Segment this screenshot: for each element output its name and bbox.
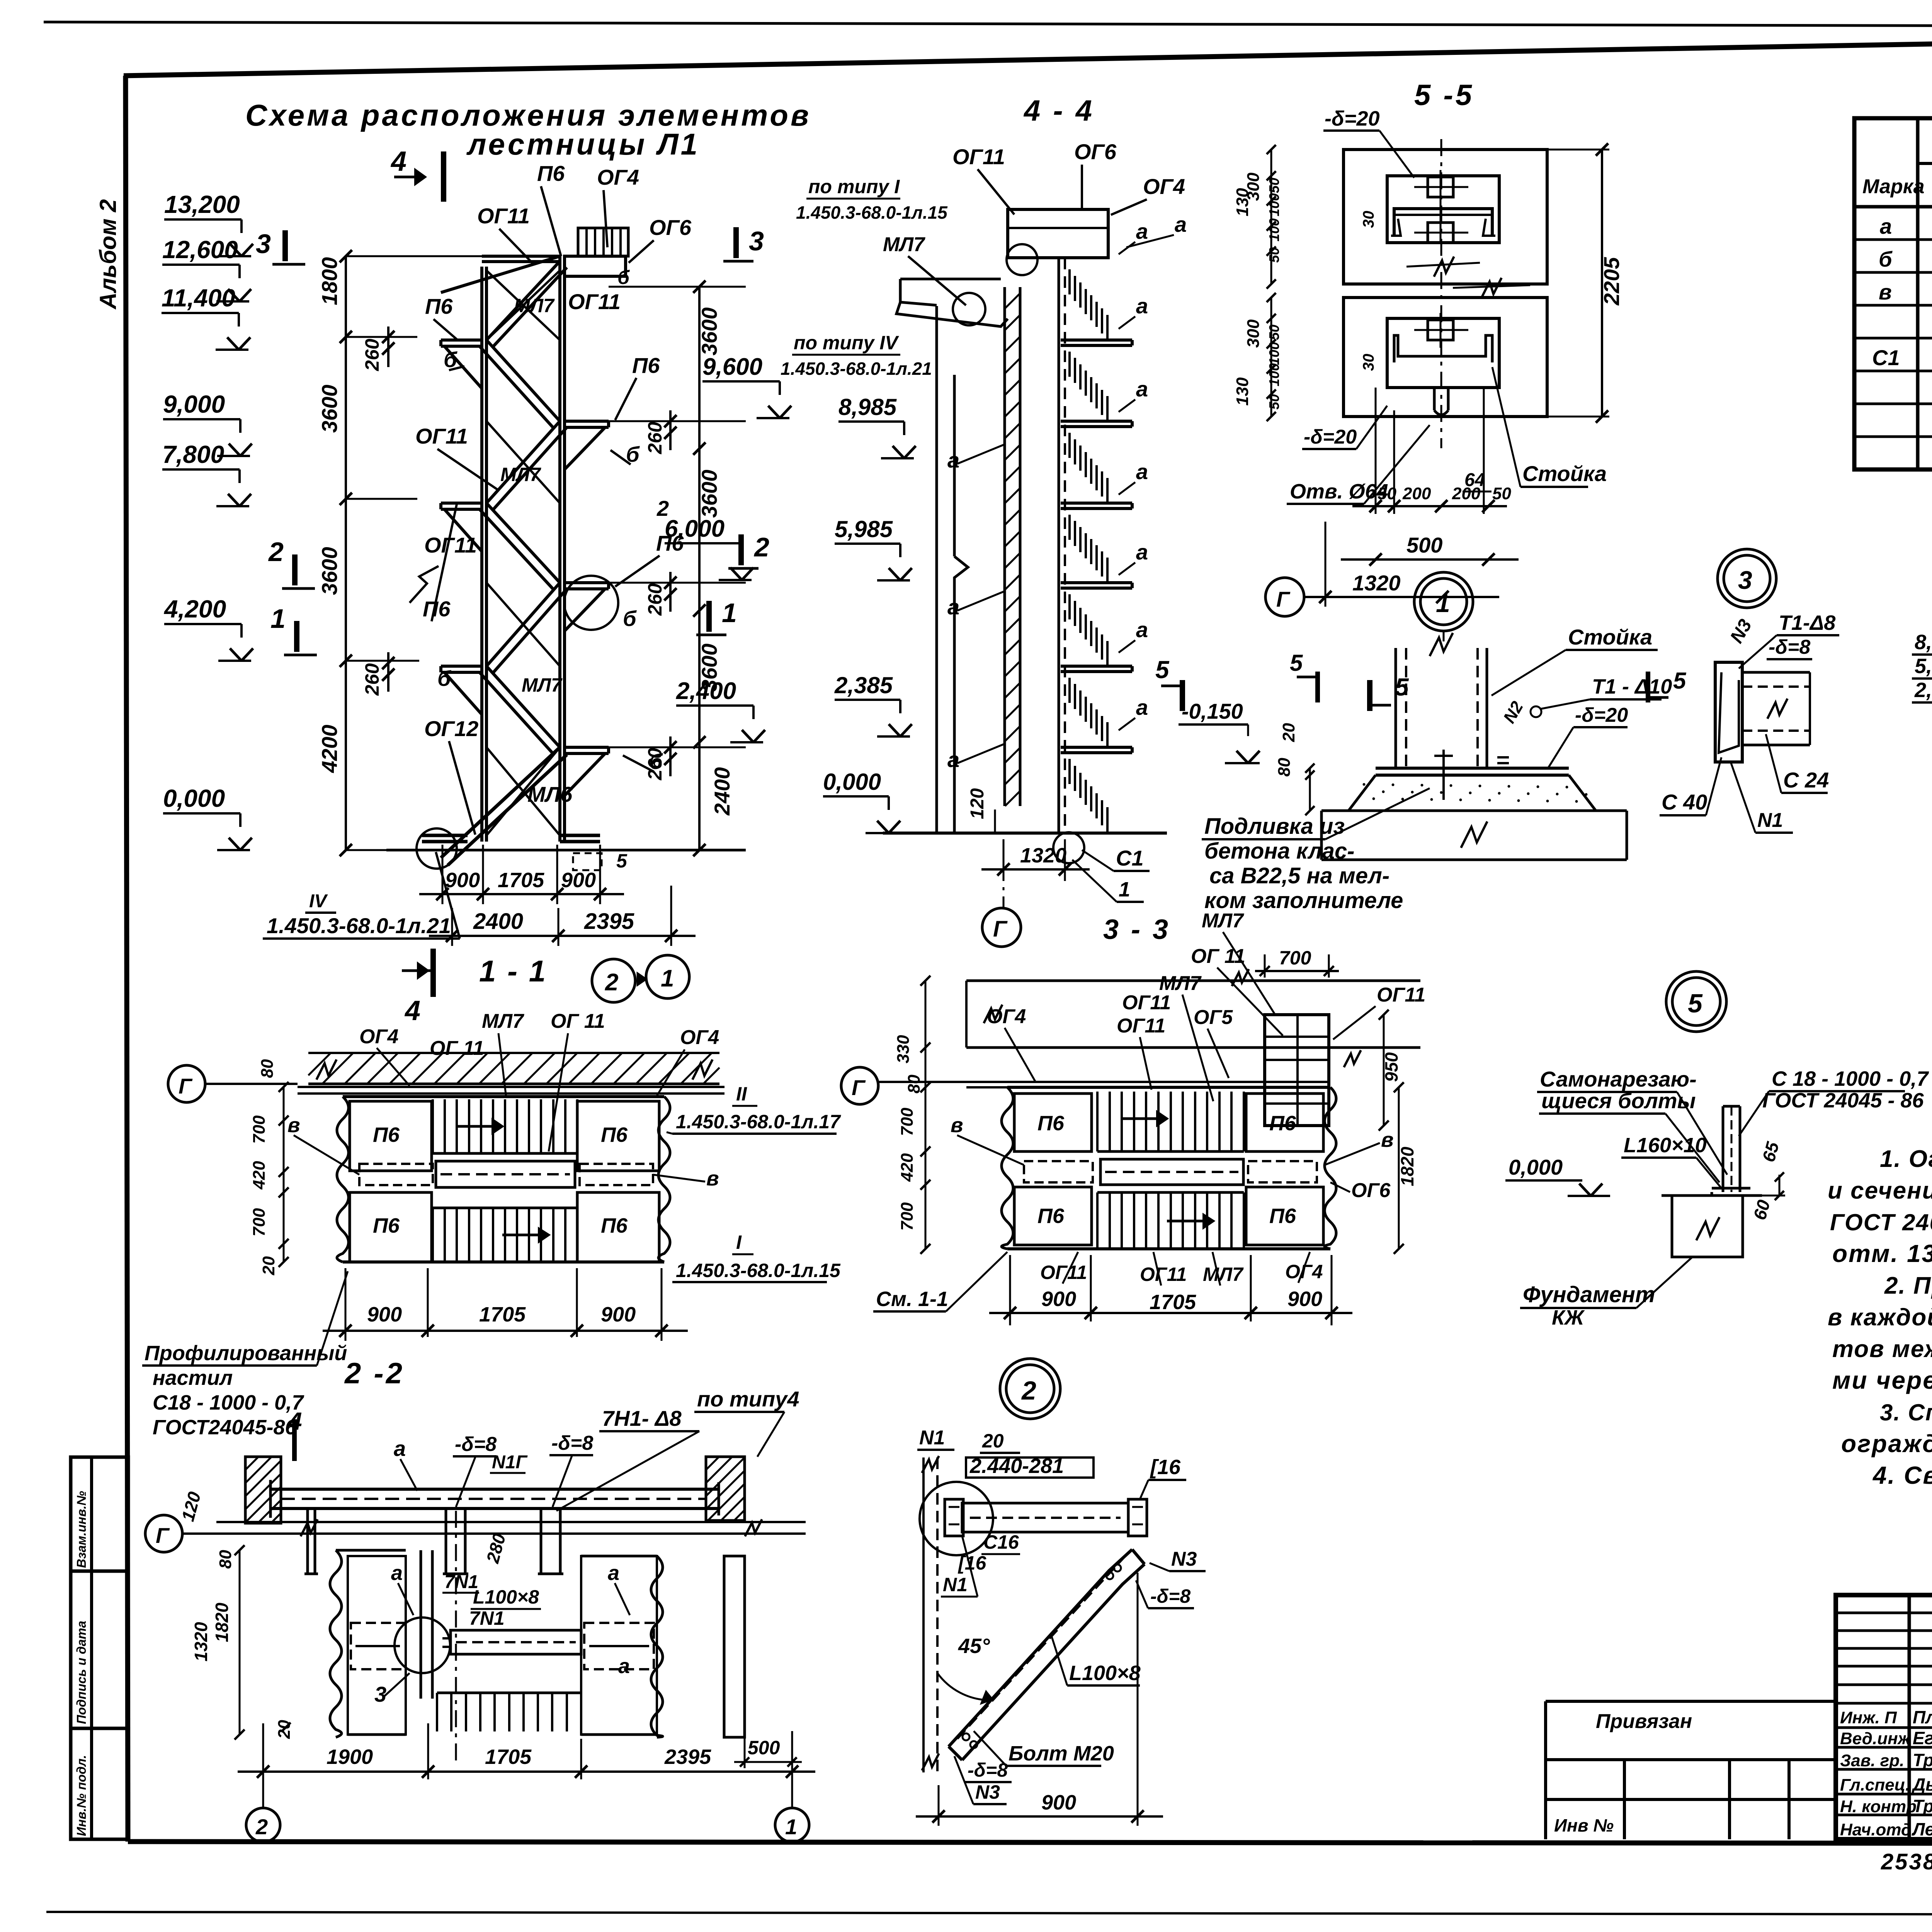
margin box podpis i data <box>71 1571 128 1728</box>
svg-text:5,985: 5,985 <box>835 516 893 542</box>
svg-text:5,985: 5,985 <box>1915 655 1932 678</box>
section mark 4 bottom <box>430 949 436 997</box>
svg-text:П6: П6 <box>601 1214 628 1237</box>
svg-text:МЛ6: МЛ6 <box>527 782 573 806</box>
5-5 dim 500 <box>1341 558 1519 561</box>
svg-text:Подпись и дата: Подпись и дата <box>74 1621 88 1725</box>
svg-text:100: 100 <box>1266 342 1282 365</box>
svg-text:1705: 1705 <box>485 1745 532 1769</box>
2-2 end columns hatched <box>245 1457 281 1523</box>
platform P6 right 3 <box>565 746 609 749</box>
hidden base box <box>573 853 602 870</box>
plan 3-3 flight top <box>1096 1092 1099 1151</box>
svg-text:ОГ 11: ОГ 11 <box>430 1037 484 1060</box>
svg-text:а: а <box>947 595 959 619</box>
2-2 dim 500 <box>744 1737 746 1768</box>
level 2.400 right <box>676 704 753 707</box>
dim chain left main <box>345 256 347 850</box>
svg-text:50: 50 <box>1492 484 1511 503</box>
stair flight ML7 f4 <box>486 503 560 583</box>
svg-text:Инв.№ подл.: Инв.№ подл. <box>74 1755 88 1836</box>
svg-text:700: 700 <box>250 1115 269 1144</box>
svg-text:а: а <box>1175 212 1187 236</box>
grid circle 1 small <box>646 955 689 998</box>
svg-text:а: а <box>608 1561 619 1585</box>
2-2 center beam <box>451 1630 581 1654</box>
svg-text:Болт М20: Болт М20 <box>1009 1742 1114 1765</box>
svg-text:а: а <box>1136 294 1148 318</box>
svg-text:3: 3 <box>1738 566 1752 594</box>
svg-text:1.450.3-68.0-1л.15: 1.450.3-68.0-1л.15 <box>676 1260 841 1281</box>
svg-text:2395: 2395 <box>584 909 634 934</box>
svg-text:30: 30 <box>1360 211 1377 228</box>
svg-text:Вед.инж: Вед.инж <box>1840 1729 1912 1748</box>
platform P6 left 1 <box>441 338 482 342</box>
level 13.200 <box>164 218 241 221</box>
svg-text:Стойка: Стойка <box>1522 461 1607 486</box>
svg-text:11,400: 11,400 <box>162 284 235 312</box>
base pads <box>422 834 468 837</box>
svg-text:ОГ11: ОГ11 <box>424 533 477 557</box>
svg-text:700: 700 <box>898 1107 917 1136</box>
2-2 hangers <box>306 1509 309 1574</box>
dim 260 left 1 <box>387 327 389 367</box>
svg-text:С1: С1 <box>1872 345 1900 370</box>
detail 2 diagonal brace <box>949 1549 1132 1747</box>
plan 3-3 body <box>1002 1087 1013 1249</box>
svg-text:N1: N1 <box>919 1427 945 1449</box>
svg-text:Альбом 2: Альбом 2 <box>95 199 121 310</box>
svg-text:50: 50 <box>1266 178 1282 193</box>
5-5 centerline <box>1440 139 1442 448</box>
svg-text:L100×8: L100×8 <box>473 1586 539 1608</box>
svg-text:900: 900 <box>445 869 480 892</box>
detail 2 dim 900 <box>938 1785 940 1826</box>
svg-text:а: а <box>1136 377 1148 401</box>
svg-text:Т1 - Δ10: Т1 - Δ10 <box>1592 675 1672 698</box>
svg-text:2,400: 2,400 <box>676 678 736 704</box>
svg-text:а: а <box>947 747 959 772</box>
svg-text:20: 20 <box>259 1256 278 1276</box>
svg-text:900: 900 <box>367 1303 402 1326</box>
4-4 top landing console <box>896 302 1008 327</box>
svg-text:ОГ11: ОГ11 <box>1140 1264 1187 1285</box>
platform P6 right 2 <box>565 581 609 584</box>
level 9.000 <box>163 418 240 420</box>
svg-text:по типу4: по типу4 <box>697 1387 799 1411</box>
2-2 axis dashdot vertical <box>455 1511 457 1762</box>
plan 3-3 top right platform <box>1265 1015 1329 1126</box>
svg-text:в: в <box>287 1114 300 1137</box>
elements table row lines <box>1854 238 1932 241</box>
4-4 levels <box>838 420 904 423</box>
svg-text:См. 1-1: См. 1-1 <box>876 1287 948 1311</box>
svg-text:0,000: 0,000 <box>823 769 881 795</box>
5-5 dim 1320 <box>1325 522 1327 607</box>
detail 1 circle <box>1414 572 1473 631</box>
svg-text:ОГ4: ОГ4 <box>359 1026 398 1048</box>
svg-text:L160×10: L160×10 <box>1624 1134 1707 1157</box>
svg-text:Профилированный: Профилированный <box>145 1342 347 1365</box>
svg-text:ОГ6: ОГ6 <box>649 215 692 240</box>
svg-text:1: 1 <box>785 1815 797 1839</box>
svg-text:МЛ7: МЛ7 <box>1202 910 1244 932</box>
svg-text:по типу I: по типу I <box>808 176 900 197</box>
plan 3-3 grid circle G <box>841 1067 878 1104</box>
svg-text:ОГ4: ОГ4 <box>680 1026 719 1049</box>
stair flight ML7 f3 <box>486 421 560 503</box>
svg-text:б: б <box>623 606 637 631</box>
drawing frame left <box>126 76 128 1842</box>
svg-text:5: 5 <box>1290 650 1303 676</box>
svg-text:2: 2 <box>753 532 769 562</box>
svg-text:в: в <box>706 1167 719 1190</box>
svg-text:1.450.3-68.0-1л.21: 1.450.3-68.0-1л.21 <box>781 359 932 379</box>
svg-text:Дыба: Дыба <box>1911 1774 1932 1794</box>
level 0.000 <box>163 812 240 815</box>
svg-text:в: в <box>1879 280 1892 304</box>
svg-text:5: 5 <box>1155 656 1170 684</box>
detail 1 anchor <box>1442 750 1445 800</box>
elements table outer <box>1854 118 1932 469</box>
section mark 5 det1 <box>1315 672 1320 702</box>
svg-text:а: а <box>1136 459 1148 484</box>
svg-text:б: б <box>437 666 451 690</box>
svg-text:и сечении 4- 4 из профилиро: и сечении 4- 4 из профилированного насти… <box>1828 1177 1932 1204</box>
svg-text:лестницы Л1: лестницы Л1 <box>466 127 700 161</box>
margin box inv no podl <box>71 1728 128 1839</box>
svg-text:13,200: 13,200 <box>164 190 240 218</box>
svg-text:в: в <box>951 1114 963 1137</box>
svg-text:1. Ограждение площадок лестн: 1. Ограждение площадок лестницы на схеме… <box>1880 1146 1932 1172</box>
svg-text:3: 3 <box>256 229 271 259</box>
svg-text:80: 80 <box>216 1550 235 1569</box>
detail 5 angle seat <box>1712 1187 1750 1190</box>
svg-text:1320: 1320 <box>191 1622 211 1662</box>
svg-text:7Н1- Δ8: 7Н1- Δ8 <box>602 1406 682 1430</box>
stair flight ML7 top <box>486 261 560 340</box>
svg-text:Марка: Марка <box>1862 175 1925 198</box>
svg-text:ГОСТ24045-86: ГОСТ24045-86 <box>153 1416 297 1439</box>
svg-text:а: а <box>1136 617 1148 642</box>
section mark 5 pair <box>1180 680 1185 711</box>
svg-text:П6: П6 <box>1269 1204 1296 1228</box>
svg-text:2. Профилированный настил кр: 2. Профилированный настил крепить к балк… <box>1884 1272 1932 1299</box>
svg-text:-δ=8: -δ=8 <box>455 1433 497 1456</box>
svg-text:Зав. гр.: Зав. гр. <box>1840 1751 1904 1770</box>
plan 3-3 left dims <box>925 981 927 1249</box>
grid circle 2 small <box>592 959 635 1002</box>
svg-text:45°: 45° <box>958 1634 990 1658</box>
elements table columns <box>1916 118 1920 469</box>
5-5 dim 2205 <box>1601 150 1603 417</box>
break mark on column line <box>410 566 439 603</box>
svg-text:ГОСТ 24045-86 условно не пок: ГОСТ 24045-86 условно не показано. Ограж… <box>1830 1209 1932 1235</box>
svg-text:МЛ7: МЛ7 <box>883 233 925 256</box>
svg-text:бетона клас-: бетона клас- <box>1204 838 1355 864</box>
svg-text:1 - 1: 1 - 1 <box>479 954 547 988</box>
svg-text:900: 900 <box>1287 1287 1322 1311</box>
cross brace panel 2 <box>486 421 560 503</box>
svg-text:а: а <box>1136 695 1148 719</box>
4-4 bottom flight comb <box>1068 759 1071 784</box>
5-5 upper plate <box>1387 176 1499 243</box>
5-5 left dims lower <box>1270 298 1272 417</box>
detail 3 beam dashed <box>1742 671 1810 674</box>
plan 3-3 dim 700 <box>1255 970 1339 972</box>
2-2 lower band <box>216 1521 806 1523</box>
svg-text:а: а <box>1136 540 1148 564</box>
dim 2400 2395 <box>451 908 453 946</box>
svg-text:3600: 3600 <box>317 384 342 433</box>
svg-text:2: 2 <box>255 1815 268 1839</box>
svg-text:3600: 3600 <box>697 469 721 518</box>
svg-text:3 - 3: 3 - 3 <box>1103 914 1170 945</box>
plan 3-3 axis line <box>879 1081 1330 1083</box>
stair elevation right column <box>558 256 561 842</box>
svg-text:4: 4 <box>404 995 420 1026</box>
level 12.600 <box>162 264 240 266</box>
5-5 upper channel <box>1394 209 1492 236</box>
cross brace panel 4 <box>486 747 560 835</box>
svg-text:КЖ: КЖ <box>1552 1306 1585 1329</box>
platform P6 left 3 <box>441 665 482 668</box>
svg-text:Егоров: Егоров <box>1913 1728 1932 1748</box>
svg-text:200: 200 <box>1402 484 1431 503</box>
svg-text:С1: С1 <box>1116 846 1144 870</box>
svg-text:ОГ4: ОГ4 <box>1285 1261 1323 1282</box>
svg-text:ОГ11: ОГ11 <box>952 145 1005 169</box>
svg-text:4 - 4: 4 - 4 <box>1023 94 1094 127</box>
detail 3 circle <box>1718 549 1776 608</box>
detail 2 circle <box>1000 1359 1060 1419</box>
plan 1-1 body <box>337 1097 349 1262</box>
svg-text:ОГ11: ОГ11 <box>415 424 468 448</box>
svg-text:1: 1 <box>722 598 737 628</box>
svg-text:2: 2 <box>1021 1376 1036 1405</box>
svg-text:С 18 - 1000 - 0,7: С 18 - 1000 - 0,7 <box>1772 1067 1929 1090</box>
svg-text:260: 260 <box>644 422 666 454</box>
svg-text:С16: С16 <box>983 1531 1019 1553</box>
2-2 main beam <box>270 1488 719 1491</box>
svg-text:2: 2 <box>268 537 284 567</box>
svg-text:С 24: С 24 <box>1783 768 1829 792</box>
svg-text:Г: Г <box>156 1523 170 1548</box>
top platform diagonal OG11 <box>441 256 560 293</box>
stair flight ML7 f2 <box>486 340 560 421</box>
paper top edge <box>44 22 1932 27</box>
title block outer <box>1836 1595 1932 1839</box>
detail 2 stand dashed <box>936 1458 939 1772</box>
svg-text:900: 900 <box>601 1303 636 1326</box>
left annex table <box>1546 1700 1836 1703</box>
ground line <box>386 849 746 852</box>
plan 1-1 mid beam <box>436 1161 575 1187</box>
svg-text:-δ=20: -δ=20 <box>1325 107 1380 130</box>
svg-text:1320: 1320 <box>1020 844 1066 867</box>
svg-text:П6: П6 <box>1037 1112 1065 1135</box>
top platform OG6 <box>565 256 626 276</box>
4-4 base circle <box>1053 832 1084 863</box>
svg-text:100: 100 <box>1266 363 1282 386</box>
svg-text:80: 80 <box>258 1059 277 1078</box>
svg-text:2400: 2400 <box>710 767 734 816</box>
svg-text:Взам.инв.№: Взам.инв.№ <box>74 1491 88 1568</box>
svg-text:260: 260 <box>644 748 666 781</box>
svg-text:П6: П6 <box>373 1214 400 1237</box>
svg-text:ОГ6: ОГ6 <box>1074 139 1117 164</box>
detail 2 bolt marks <box>1106 1572 1113 1579</box>
svg-text:а: а <box>1880 214 1892 238</box>
svg-text:С18 - 1000 - 0,7: С18 - 1000 - 0,7 <box>153 1391 304 1414</box>
svg-text:IV: IV <box>309 891 328 912</box>
dim 260 right 2 <box>669 572 672 612</box>
svg-text:1820: 1820 <box>1397 1146 1417 1186</box>
4-4 stair body right column <box>1058 258 1060 833</box>
level 6.000 right <box>665 542 742 544</box>
svg-text:П6: П6 <box>1269 1112 1296 1135</box>
svg-text:С 40: С 40 <box>1662 790 1707 814</box>
svg-text:са В22,5 на мел-: са В22,5 на мел- <box>1209 863 1389 888</box>
svg-text:ОГ11: ОГ11 <box>1117 1015 1165 1037</box>
svg-text:N1: N1 <box>943 1574 968 1595</box>
svg-text:отм. 13. 200.: отм. 13. 200. <box>1832 1240 1932 1267</box>
svg-text:Самонарезаю-: Самонарезаю- <box>1540 1067 1697 1091</box>
svg-text:а: а <box>1136 219 1148 243</box>
4-4 ground line <box>883 832 1167 835</box>
svg-text:П6: П6 <box>373 1123 400 1146</box>
svg-text:100: 100 <box>1266 218 1282 241</box>
drawing frame top <box>124 32 1932 76</box>
detail 5 post <box>1722 1106 1725 1192</box>
svg-text:2: 2 <box>605 969 618 996</box>
4-4 hatched wall <box>1003 287 1006 806</box>
svg-text:ОГ11: ОГ11 <box>477 204 530 228</box>
svg-text:а: а <box>618 1655 630 1678</box>
svg-text:5: 5 <box>1688 989 1703 1018</box>
2-2 bottom dims <box>262 1723 264 1804</box>
svg-text:1: 1 <box>270 604 286 634</box>
svg-text:ОГ5: ОГ5 <box>1194 1006 1233 1029</box>
detail 1 base plate <box>1376 767 1569 770</box>
svg-text:N3: N3 <box>975 1781 1000 1803</box>
4-4 dim 1320 <box>1003 839 1005 881</box>
svg-text:ми через 500мм.: ми через 500мм. <box>1832 1366 1932 1394</box>
2-2 grid circle 2 <box>246 1808 280 1842</box>
title block stamp small rows <box>1836 1612 1932 1614</box>
base node circle <box>417 828 457 869</box>
svg-text:2 -2: 2 -2 <box>344 1357 405 1390</box>
svg-text:3: 3 <box>374 1682 386 1706</box>
svg-text:700: 700 <box>1279 947 1311 969</box>
svg-text:8,985: 8,985 <box>1915 631 1932 654</box>
svg-text:420: 420 <box>898 1153 917 1182</box>
level 11.400 <box>162 312 239 314</box>
svg-text:4. Сварку выполнять по ГОС: 4. Сварку выполнять по ГОСТ5264 -80 <box>1872 1461 1932 1489</box>
svg-text:950: 950 <box>1381 1052 1401 1082</box>
svg-text:7N1: 7N1 <box>444 1572 478 1592</box>
5-5 break marks <box>1434 257 1454 277</box>
plan 3-3 right dims <box>1383 1015 1385 1126</box>
svg-text:по типу IV: по типу IV <box>794 332 899 354</box>
svg-text:130: 130 <box>1233 188 1252 216</box>
svg-text:120: 120 <box>967 788 988 819</box>
svg-text:Г: Г <box>993 917 1008 942</box>
svg-text:II: II <box>736 1083 747 1105</box>
svg-text:25388 - 02: 25388 - 02 <box>1881 1849 1932 1874</box>
svg-text:1705: 1705 <box>1150 1291 1196 1314</box>
2-2 grid circle 1 <box>775 1808 809 1842</box>
cross brace panel 3 <box>486 583 560 666</box>
detail 1 grout wedge <box>1349 775 1596 811</box>
5-5 slot <box>1433 388 1436 410</box>
svg-text:50: 50 <box>1266 325 1282 340</box>
svg-text:Инв №: Инв № <box>1554 1815 1614 1835</box>
svg-text:МЛ7: МЛ7 <box>1159 972 1202 995</box>
plan 1-1 flight bottom <box>432 1208 434 1262</box>
svg-text:9,000: 9,000 <box>163 390 225 418</box>
svg-text:3600: 3600 <box>697 307 721 355</box>
svg-text:ОГ4: ОГ4 <box>987 1005 1026 1028</box>
svg-text:ОГ11: ОГ11 <box>1122 992 1171 1014</box>
platform P6 right 1 <box>565 420 609 423</box>
svg-text:1: 1 <box>1119 878 1130 901</box>
svg-text:2,385: 2,385 <box>1914 679 1932 702</box>
svg-text:ОГ11: ОГ11 <box>568 289 621 314</box>
svg-text:5 -5: 5 -5 <box>1414 79 1474 112</box>
svg-text:б: б <box>1879 247 1893 271</box>
svg-text:L100×8: L100×8 <box>1069 1662 1141 1685</box>
svg-text:500: 500 <box>1406 533 1442 557</box>
svg-text:Нач.отд.: Нач.отд. <box>1840 1820 1916 1839</box>
svg-text:N3: N3 <box>1171 1548 1197 1570</box>
plan 3-3 mid beam <box>1100 1159 1243 1185</box>
svg-text:-δ=8: -δ=8 <box>1769 636 1810 658</box>
svg-text:2395: 2395 <box>664 1745 711 1769</box>
top guard rail comb <box>578 228 628 256</box>
svg-text:1.450.3-68.0-1л.17: 1.450.3-68.0-1л.17 <box>676 1111 841 1133</box>
svg-text:Т1-Δ8: Т1-Δ8 <box>1779 611 1835 634</box>
svg-text:50: 50 <box>1378 484 1396 503</box>
svg-text:МЛ7: МЛ7 <box>500 464 541 485</box>
svg-text:6,000: 6,000 <box>665 515 724 542</box>
plan 1-1 hatched slab band <box>308 1052 719 1054</box>
svg-text:20: 20 <box>982 1430 1004 1452</box>
2-2 lower panels <box>330 1550 342 1737</box>
svg-text:ОГ4: ОГ4 <box>597 165 639 189</box>
svg-text:1800: 1800 <box>317 257 342 305</box>
plan 1-1 flight top <box>432 1099 434 1153</box>
svg-text:Г: Г <box>852 1075 866 1100</box>
svg-text:330: 330 <box>894 1035 913 1063</box>
cross brace panel 1 <box>486 270 560 340</box>
svg-text:-δ=8: -δ=8 <box>968 1759 1008 1781</box>
svg-text:12,600: 12,600 <box>162 236 238 264</box>
svg-text:3: 3 <box>749 226 764 256</box>
dim 260 left 2 <box>387 652 389 692</box>
5-5 upper bolts <box>1428 177 1453 197</box>
svg-text:260: 260 <box>361 663 383 696</box>
svg-text:2400: 2400 <box>473 909 523 934</box>
title block name rows <box>1836 1726 1932 1729</box>
svg-text:в каждой волне самонарезающи: в каждой волне самонарезающими болтами, … <box>1828 1304 1932 1331</box>
detail 2 horizontal member <box>962 1503 1128 1532</box>
svg-text:1.450.3-68.0-1л.21: 1.450.3-68.0-1л.21 <box>267 913 451 938</box>
svg-text:ОГ11: ОГ11 <box>1377 984 1425 1006</box>
svg-text:420: 420 <box>250 1161 269 1190</box>
extension lines left <box>346 255 482 257</box>
svg-text:300: 300 <box>1244 319 1263 348</box>
